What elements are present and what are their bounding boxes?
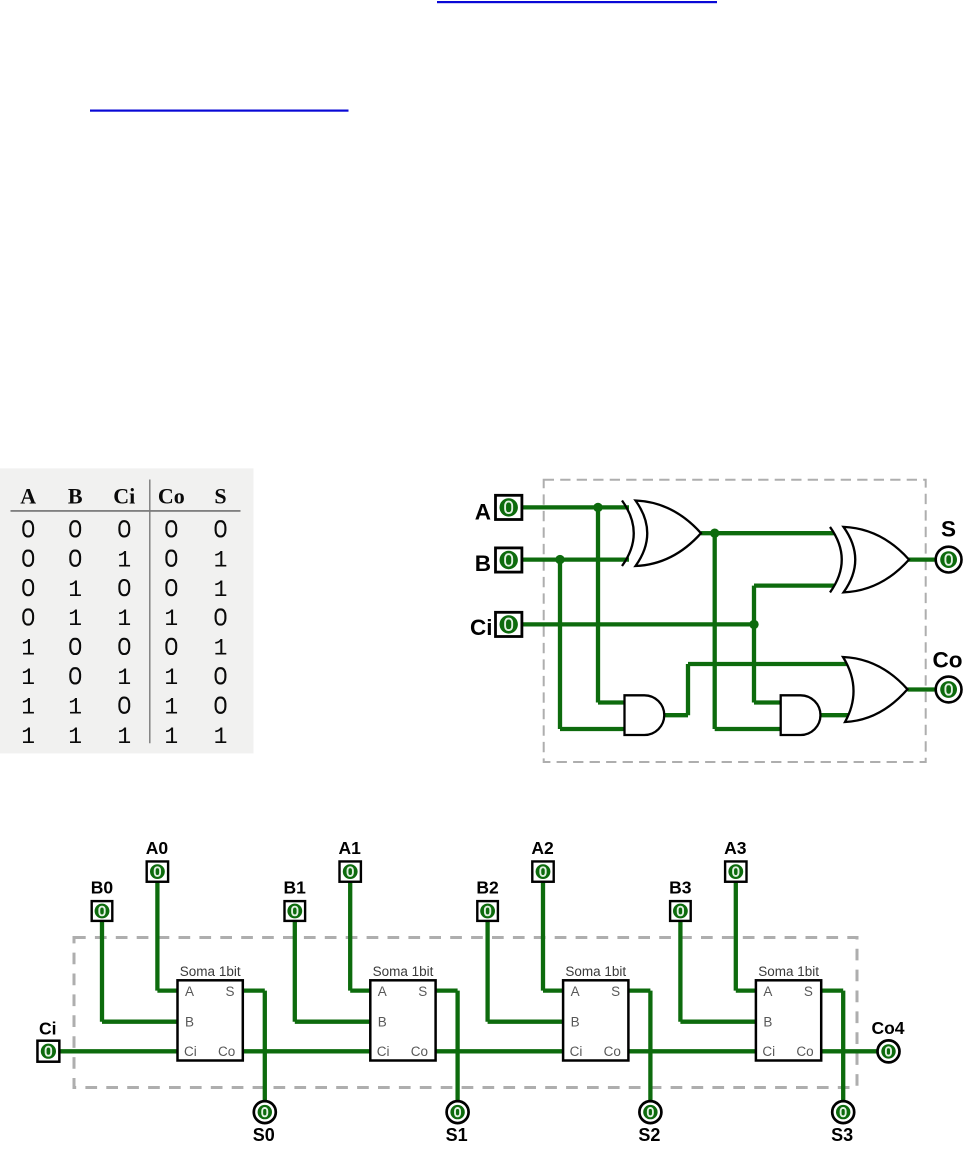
svg-text:1: 1 [117, 724, 131, 750]
svg-text:A: A [378, 984, 387, 999]
svg-text:A: A [571, 984, 580, 999]
svg-text:S: S [214, 484, 226, 509]
svg-text:S1: S1 [446, 1125, 468, 1145]
svg-text:Soma 1bit: Soma 1bit [373, 964, 434, 979]
svg-text:1: 1 [68, 694, 82, 720]
svg-text:B: B [763, 1014, 772, 1029]
svg-text:B: B [571, 1014, 580, 1029]
svg-text:S0: S0 [253, 1125, 275, 1145]
svg-text:1: 1 [21, 636, 35, 662]
svg-text:Ci: Ci [377, 1044, 390, 1059]
svg-text:B2: B2 [476, 878, 499, 898]
svg-text:B0: B0 [91, 878, 114, 898]
svg-text:S: S [804, 984, 813, 999]
svg-text:Ci: Ci [470, 615, 493, 640]
svg-text:S2: S2 [638, 1125, 660, 1145]
svg-text:Ci: Ci [39, 1018, 57, 1038]
svg-text:Ci: Ci [762, 1044, 775, 1059]
svg-text:1: 1 [164, 694, 178, 720]
svg-text:A1: A1 [339, 838, 362, 858]
svg-text:B: B [68, 484, 83, 509]
svg-text:Co4: Co4 [871, 1018, 904, 1038]
svg-text:A: A [475, 500, 491, 525]
svg-text:1: 1 [214, 636, 228, 662]
svg-text:A3: A3 [724, 838, 747, 858]
svg-text:1: 1 [21, 665, 35, 691]
svg-text:1: 1 [214, 577, 228, 603]
svg-text:Co: Co [218, 1044, 235, 1059]
svg-text:1: 1 [21, 724, 35, 750]
svg-text:1: 1 [21, 694, 35, 720]
svg-text:Co: Co [796, 1044, 813, 1059]
svg-text:1: 1 [117, 547, 131, 573]
svg-text:1: 1 [164, 606, 178, 632]
svg-text:Ci: Ci [570, 1044, 583, 1059]
svg-text:A0: A0 [146, 838, 169, 858]
svg-text:B: B [378, 1014, 387, 1029]
svg-text:A2: A2 [531, 838, 554, 858]
svg-text:1: 1 [68, 606, 82, 632]
svg-text:Soma 1bit: Soma 1bit [565, 964, 626, 979]
svg-text:1: 1 [214, 547, 228, 573]
svg-text:1: 1 [117, 606, 131, 632]
svg-text:B: B [475, 551, 491, 576]
svg-text:S: S [226, 984, 235, 999]
svg-text:S3: S3 [831, 1125, 853, 1145]
svg-text:A: A [20, 484, 36, 509]
svg-text:Soma 1bit: Soma 1bit [758, 964, 819, 979]
svg-text:Soma 1bit: Soma 1bit [180, 964, 241, 979]
svg-text:B: B [185, 1014, 194, 1029]
svg-text:1: 1 [117, 665, 131, 691]
svg-text:Co: Co [933, 648, 963, 673]
svg-text:A: A [763, 984, 772, 999]
svg-text:Ci: Ci [184, 1044, 197, 1059]
svg-text:Co: Co [604, 1044, 621, 1059]
svg-text:1: 1 [164, 724, 178, 750]
svg-text:S: S [611, 984, 620, 999]
svg-text:A: A [185, 984, 194, 999]
svg-text:Co: Co [411, 1044, 428, 1059]
svg-text:S: S [418, 984, 427, 999]
svg-text:1: 1 [214, 724, 228, 750]
svg-text:S: S [941, 517, 956, 542]
svg-text:Ci: Ci [113, 484, 135, 509]
svg-text:Co: Co [158, 484, 185, 509]
svg-text:B3: B3 [669, 878, 692, 898]
svg-text:B1: B1 [284, 878, 307, 898]
svg-text:1: 1 [164, 665, 178, 691]
svg-text:1: 1 [68, 724, 82, 750]
svg-text:1: 1 [68, 577, 82, 603]
